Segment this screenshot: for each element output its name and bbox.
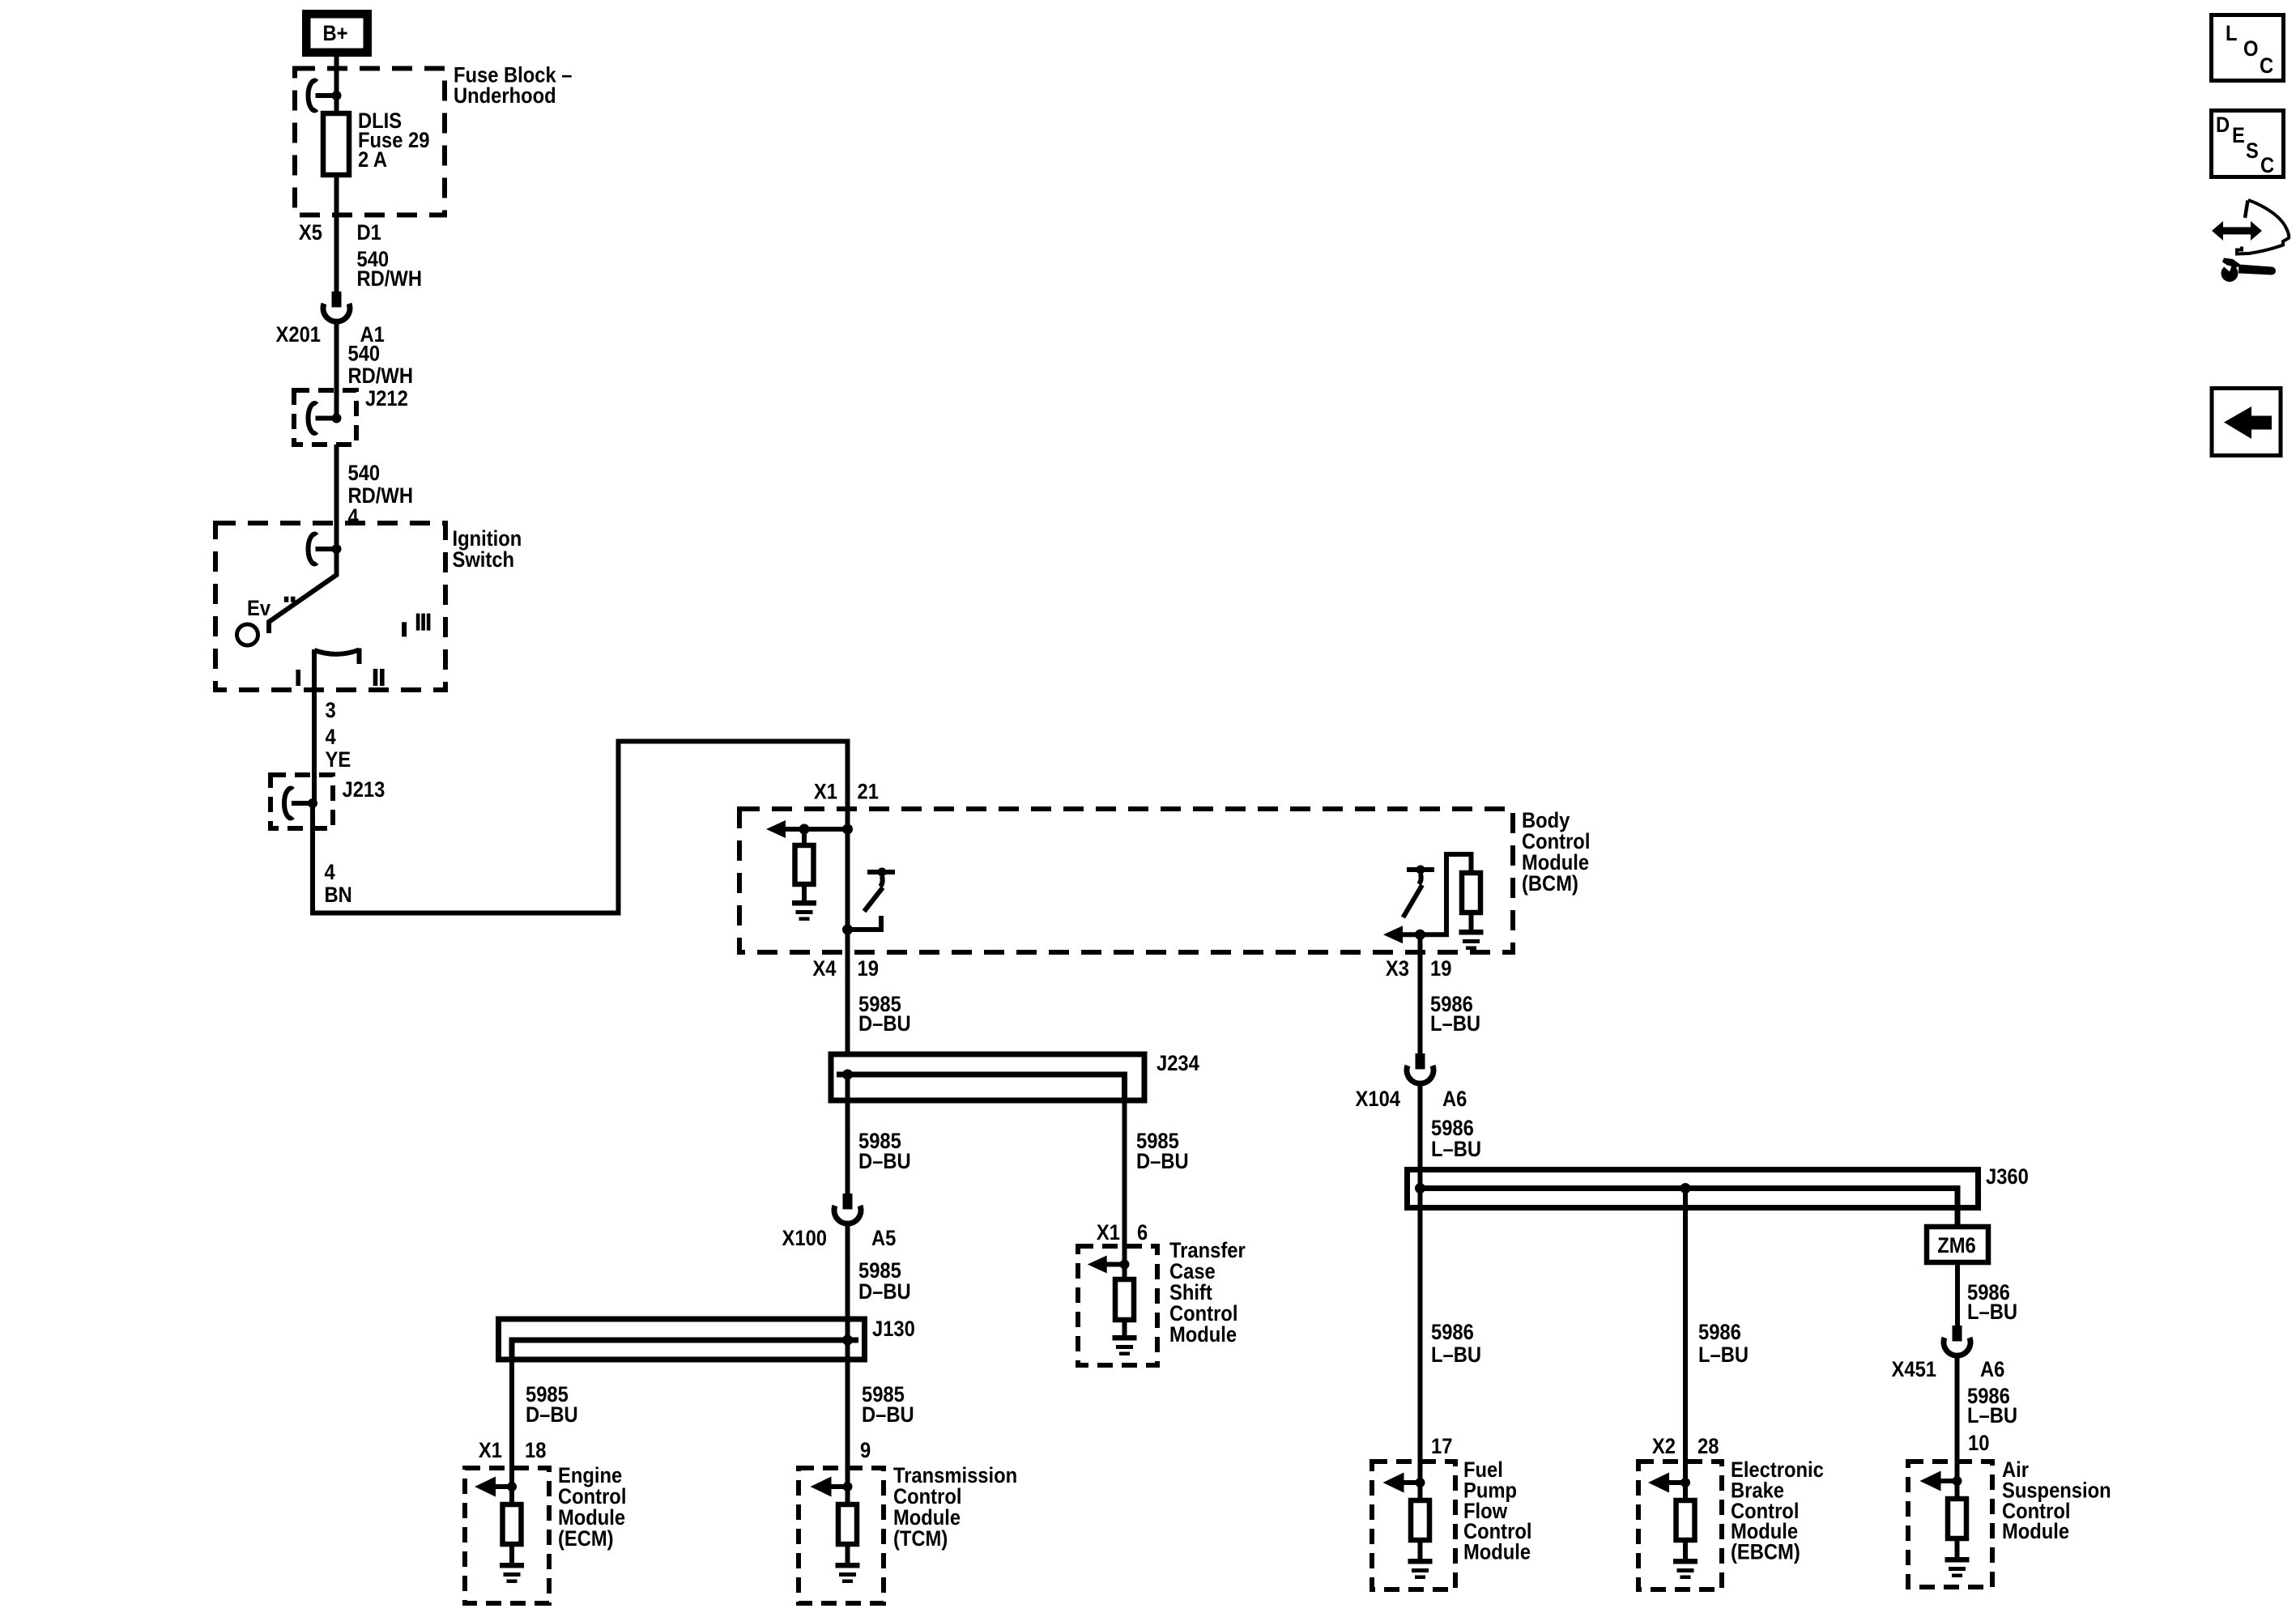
label Fuel Pump Flow Control Module [1463,1458,1531,1564]
svg-text:X201: X201 [276,323,321,347]
svg-text:L–BU: L–BU [1967,1404,2017,1428]
svg-text:D–BU: D–BU [858,1012,911,1036]
svg-text:X451: X451 [1892,1358,1936,1382]
svg-text:E: E [2232,124,2245,148]
svg-text:D–BU: D–BU [1136,1150,1189,1174]
wire J234 to transfer case module [1122,1100,1127,1264]
fuel pump flow control module dashed box [1372,1462,1455,1589]
svg-text:540: 540 [348,342,381,366]
position mark II [373,669,385,686]
svg-text:L–BU: L–BU [1698,1343,1749,1368]
label Electronic Brake Control Module (EBCM) [1731,1458,1824,1564]
svg-text:D–BU: D–BU [858,1280,911,1304]
svg-text:X5: X5 [299,221,322,245]
wire X104 to J360 [1418,1083,1423,1189]
icon harness outline [2237,200,2289,254]
body control module dashed box [739,809,1513,952]
SECTION: icons [2212,15,2290,456]
svg-text:L–BU: L–BU [1967,1300,2017,1325]
pin label X1 21 [814,780,879,804]
svg-text:6: 6 [1137,1221,1148,1245]
pin label X5 D1 [299,221,381,245]
wire label 4 YE [326,726,351,772]
svg-text:19: 19 [1430,957,1451,981]
wire ZM6 to X451 [1955,1262,1960,1327]
ECM internal resistor arrow ground [475,1477,524,1584]
position tick [402,622,407,636]
node resistor tap [799,824,810,835]
key symbol Ev [247,597,296,621]
svg-text:Module: Module [1169,1323,1237,1347]
wire J213 to BCM X1-21 [313,742,848,913]
svg-text:X3: X3 [1386,957,1409,981]
connector X201 pin A1 [276,291,385,347]
option box ZM6 [1927,1227,1988,1262]
wire label 5986 L-BU right of BCM [1430,993,1480,1036]
svg-text:Underhood: Underhood [454,84,556,109]
pin label 17 [1431,1435,1452,1459]
svg-text:(BCM): (BCM) [1522,872,1578,896]
pin label X1 6 [1097,1221,1148,1245]
svg-text:(EBCM): (EBCM) [1731,1540,1800,1564]
transistor switch BCM right [1404,866,1435,918]
svg-text:4: 4 [325,861,335,885]
svg-text:X1: X1 [479,1439,502,1463]
wire label 5985 D-BU [858,1130,911,1174]
wire J234 to X100 [846,1074,850,1194]
svg-text:9: 9 [860,1439,871,1463]
wire label 5986 L-BU [1967,1281,2017,1325]
icon back arrow box [2212,389,2281,456]
electronic brake control module dashed box [1638,1462,1722,1589]
pin label X2 28 [1652,1435,1719,1459]
label Fuse Block - Underhood [454,63,573,108]
ignition switch contact blade [269,549,337,633]
svg-text:D–BU: D–BU [862,1403,914,1428]
wire label 5986 L-BU [1698,1321,1749,1368]
wire J360 to fuel pump module [1418,1189,1423,1483]
svg-text:L–BU: L–BU [1430,1012,1480,1036]
position mark III [416,614,431,631]
node BCM input junction [842,824,853,835]
icon harness repair double arrow [2212,221,2262,240]
wire label 5985 D-BU [1136,1130,1189,1174]
EBCM internal resistor arrow ground [1648,1473,1698,1580]
fuse DLIS Fuse 29 2A [323,109,429,175]
fuel pump internal resistor arrow ground [1383,1473,1433,1580]
wire J360 to EBCM [1683,1189,1688,1483]
wire label 5986 L-BU [1431,1117,1481,1162]
wire J130 to ECM [509,1360,514,1487]
svg-text:D1: D1 [357,221,381,245]
air suspension internal resistor arrow ground [1920,1471,1970,1578]
wire J130 to TCM [846,1340,850,1487]
svg-text:19: 19 [858,957,879,981]
svg-text:X1: X1 [814,780,837,804]
ignition switch dashed box [215,523,445,690]
resistor BCM right [1462,873,1480,930]
label Ignition Switch [453,527,522,572]
svg-text:J130: J130 [872,1317,915,1342]
svg-text:O: O [2243,37,2258,62]
icon wrench [2219,258,2276,283]
svg-text:Ev: Ev [247,597,271,621]
engine control module dashed box [465,1468,549,1603]
air suspension control module dashed box [1908,1462,1992,1587]
svg-text:RD/WH: RD/WH [348,364,413,389]
svg-text:D–BU: D–BU [858,1150,911,1174]
wire label 540 RD/WH [348,342,413,388]
TCM internal resistor arrow ground [811,1477,860,1584]
svg-text:D: D [2216,113,2230,138]
svg-text:5986: 5986 [1698,1321,1741,1345]
wire BCM main to X4-19 [846,829,850,1054]
svg-text:X2: X2 [1652,1435,1676,1459]
label Body Control Module (BCM) [1522,809,1590,896]
svg-text:A6: A6 [1442,1087,1467,1112]
pin label 10 [1968,1432,1989,1456]
svg-text:C: C [2260,54,2273,79]
wire BCM right to X3-19 [1418,934,1423,1053]
SECTION: bcm [739,780,1590,1054]
switch output pin 3 label [326,699,336,723]
wire fuse to X201 [334,175,339,293]
wire X100 to J130 [846,1223,850,1340]
svg-text:ZM6: ZM6 [1937,1234,1976,1258]
wire BCM internal right arrow [1383,854,1472,943]
ground BCM left internal [792,900,816,921]
splice connector J212 dashed box [294,387,408,445]
pin label 9 [860,1439,871,1463]
connector X100 pin A5 [782,1194,897,1250]
svg-text:Module: Module [1463,1540,1531,1564]
svg-text:(ECM): (ECM) [558,1527,614,1551]
svg-text:B+: B+ [322,22,347,46]
svg-text:3: 3 [326,699,336,723]
svg-text:J212: J212 [365,387,408,411]
svg-text:S: S [2246,139,2259,164]
connector terminal in ignition switch [309,534,342,564]
SECTION: splices and modules [465,993,2111,1603]
svg-text:5986: 5986 [1431,1321,1474,1345]
transistor switch BCM left [842,868,895,935]
svg-text:YE: YE [326,748,351,772]
svg-text:28: 28 [1698,1435,1719,1459]
connector terminal in fuse block [309,81,342,111]
label Air Suspension Control Module [2002,1458,2111,1544]
wire ignition switch to J213 [312,649,317,803]
wire X201 to J212 [334,324,339,418]
icon DESC box [2212,111,2284,178]
wire J212 to ignition switch [334,445,339,575]
wire label 5985 D-BU [526,1383,578,1428]
wire label 5986 L-BU [1431,1321,1481,1368]
wire label 5986 L-BU [1967,1385,2017,1428]
svg-text:J234: J234 [1157,1052,1199,1076]
wire B+ to fuse block [334,56,339,114]
SECTION: left power chain [215,14,848,913]
svg-text:X4: X4 [812,957,836,981]
svg-text:A6: A6 [1980,1358,2004,1382]
pin label X4 19 [812,957,878,981]
svg-text:C: C [2260,154,2274,178]
svg-text:X104: X104 [1356,1087,1400,1112]
connector X451 pin A6 [1892,1326,2005,1381]
splice J130 [499,1317,915,1360]
resistor BCM pull-up left [795,829,814,900]
svg-text:BN: BN [325,883,352,908]
wire label 540 RD/WH 4 [348,462,413,530]
label Transfer Case Shift Control Module [1169,1239,1246,1347]
svg-text:X1: X1 [1097,1221,1120,1245]
svg-text:L–BU: L–BU [1431,1138,1481,1162]
svg-text:540: 540 [348,462,381,486]
svg-text:21: 21 [858,780,879,804]
svg-text:(TCM): (TCM) [893,1527,948,1551]
svg-text:A5: A5 [871,1227,896,1251]
svg-text:4: 4 [326,726,336,750]
transmission control module dashed box [799,1468,884,1603]
splice J360 [1408,1165,2029,1227]
fuse block - underhood dashed box [295,69,445,215]
switch wiper arc [314,649,360,665]
svg-text:J360: J360 [1986,1165,2029,1189]
splice J234 [831,1052,1199,1100]
wire label 540 RD/WH [357,248,422,291]
svg-text:10: 10 [1968,1432,1989,1456]
splice connector J213 dashed box [270,775,385,828]
svg-text:X100: X100 [782,1227,827,1251]
svg-text:Switch: Switch [453,548,515,572]
position mark I [296,670,300,686]
label Engine Control Module (ECM) [558,1464,626,1551]
svg-text:L–BU: L–BU [1431,1343,1481,1368]
pin label X1 18 [479,1439,546,1463]
ground BCM right internal [1459,930,1484,950]
icon LOC box [2212,15,2284,81]
wire label 5985 D-BU [858,993,911,1036]
svg-text:17: 17 [1431,1435,1452,1459]
label Transmission Control Module (TCM) [893,1464,1017,1551]
svg-text:2 A: 2 A [358,148,387,172]
transfer case shift control module dashed box [1078,1246,1157,1365]
svg-text:D–BU: D–BU [526,1403,578,1428]
svg-text:RD/WH: RD/WH [357,267,422,291]
node B+ battery feed [306,14,368,53]
svg-text:Module: Module [2002,1520,2069,1544]
wire label 5985 D-BU [862,1383,914,1428]
ignition switch pivot circle [237,624,258,645]
svg-text:J213: J213 [343,778,386,802]
transfer case internal resistor arrow ground [1088,1256,1137,1356]
connector X104 pin A6 [1356,1053,1467,1111]
wire BCM internal feed arrow [766,820,848,838]
wire X451 to air suspension module [1955,1355,1960,1481]
svg-text:L: L [2226,22,2238,46]
svg-text:18: 18 [525,1439,546,1463]
wire label 4 BN [325,861,352,908]
wire label 5985 D-BU [858,1259,911,1304]
pin label X3 19 [1386,957,1451,981]
